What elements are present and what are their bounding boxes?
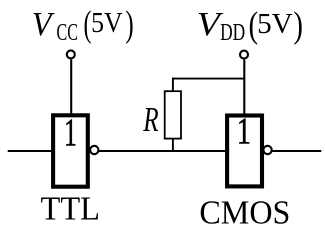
svg-text:1: 1 bbox=[64, 110, 77, 154]
gate U1 (TTL inverter) bbox=[53, 115, 88, 186]
wire VCC lead bbox=[70, 59, 72, 115]
svg-text:TTL: TTL bbox=[41, 191, 100, 228]
wire input bbox=[8, 150, 53, 152]
VCC terminal bbox=[67, 50, 75, 58]
svg-text:DD: DD bbox=[220, 19, 245, 46]
gate U2 (CMOS inverter) bbox=[227, 116, 262, 187]
svg-text:R: R bbox=[143, 100, 159, 139]
svg-text:CC: CC bbox=[57, 19, 79, 46]
resistor R bbox=[165, 91, 181, 138]
svg-text:): ) bbox=[125, 3, 133, 44]
bubble (TTL output) bbox=[90, 146, 98, 154]
svg-text:5V: 5V bbox=[257, 8, 293, 40]
label VCC(5V) bbox=[32, 3, 134, 46]
wire branch VDD to resistor bbox=[172, 78, 244, 80]
wire VDD lead bbox=[243, 60, 245, 116]
svg-text:5V: 5V bbox=[91, 8, 123, 39]
wire resistor bottom lead bbox=[172, 139, 174, 151]
label VDD(5V) bbox=[197, 4, 303, 46]
svg-text:1: 1 bbox=[237, 111, 251, 153]
bubble (CMOS output) bbox=[263, 146, 271, 154]
wire resistor top lead bbox=[172, 78, 174, 92]
svg-text:V: V bbox=[32, 6, 55, 43]
svg-text:CMOS: CMOS bbox=[199, 195, 290, 232]
svg-text:): ) bbox=[294, 4, 303, 45]
wire middle node bbox=[99, 150, 227, 152]
wire output bbox=[272, 150, 321, 152]
VDD terminal bbox=[240, 51, 248, 59]
